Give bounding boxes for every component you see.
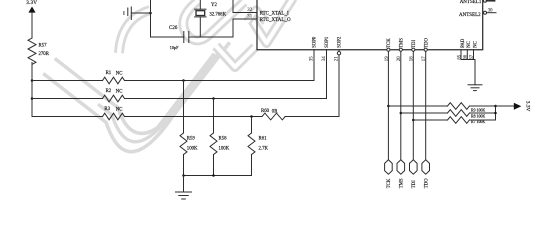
svg-text:R8 100K: R8 100K bbox=[471, 114, 485, 118]
pin SOP0 bbox=[309, 36, 317, 61]
svg-text:65: 65 bbox=[457, 54, 462, 59]
port TDI bbox=[410, 160, 418, 189]
ground pad bbox=[468, 85, 482, 91]
wire pin31 bbox=[233, 18, 257, 20]
wire net B right bbox=[125, 98, 327, 100]
svg-text:TMS: TMS bbox=[399, 178, 404, 188]
resistor R2 NC bbox=[103, 89, 125, 102]
pin PAD bbox=[457, 38, 466, 59]
pin ANTSEL2 bbox=[484, 11, 487, 14]
wire net C right bbox=[285, 116, 339, 118]
power symbol 3.3V bbox=[26, 0, 37, 12]
node bus-netA bbox=[31, 79, 34, 82]
wire SOP0 drop bbox=[313, 50, 315, 81]
svg-text:ANTSEL1: ANTSEL1 bbox=[460, 0, 482, 5]
wire R9 right bbox=[470, 105, 496, 107]
IC U1 outline bbox=[257, 0, 483, 50]
svg-text:21: 21 bbox=[334, 56, 339, 61]
crystal Y2 32.768K bbox=[195, 0, 227, 37]
port TCK bbox=[385, 160, 393, 189]
svg-text:C26: C26 bbox=[169, 26, 178, 31]
wire pullup vertical bbox=[495, 106, 497, 120]
svg-text:16: 16 bbox=[410, 56, 415, 61]
wire R7 right bbox=[470, 119, 496, 121]
wire R59 column bbox=[183, 81, 185, 134]
svg-text:29: 29 bbox=[488, 0, 493, 4]
wire R58 bottom bbox=[213, 155, 215, 176]
node TDI tap bbox=[412, 119, 415, 122]
resistor R7 100K bbox=[448, 117, 486, 124]
node pullup top bbox=[494, 105, 497, 108]
ground bbox=[176, 192, 192, 199]
svg-text:NC: NC bbox=[116, 71, 123, 76]
wire SOP2 drop bbox=[338, 55, 340, 117]
watermark chevron B bbox=[216, 46, 255, 67]
wire R61 column bbox=[251, 117, 253, 134]
wire gnd stem bbox=[183, 176, 185, 193]
resistor R60 0R bbox=[261, 109, 285, 120]
svg-text:TDO: TDO bbox=[424, 178, 429, 188]
svg-text:ANTSEL2: ANTSEL2 bbox=[459, 13, 481, 18]
svg-text:17: 17 bbox=[422, 56, 427, 61]
wire pin32 bbox=[233, 0, 257, 13]
wire bbox=[31, 13, 33, 38]
node netC-R61 bbox=[250, 115, 253, 118]
svg-text:270R: 270R bbox=[39, 52, 50, 57]
watermark apex bbox=[247, 10, 266, 22]
svg-text:R9 100K: R9 100K bbox=[471, 109, 485, 113]
svg-text:SOP2: SOP2 bbox=[338, 36, 343, 48]
power arrow 3.3V right bbox=[514, 101, 531, 112]
svg-text:TDI: TDI bbox=[412, 180, 417, 188]
svg-text:34: 34 bbox=[322, 56, 327, 61]
pin ANTSEL1 bbox=[484, 0, 487, 2]
wire pad bar bbox=[461, 59, 475, 61]
svg-text:R61: R61 bbox=[259, 137, 268, 142]
svg-text:19: 19 bbox=[385, 56, 390, 61]
svg-text:66: 66 bbox=[464, 54, 469, 59]
pin NC 67 bbox=[470, 41, 479, 59]
watermark letter U stroke bbox=[43, 0, 293, 152]
svg-text:32.768K: 32.768K bbox=[209, 12, 226, 17]
resistor R3 NC bbox=[103, 107, 125, 120]
watermark arc left bbox=[119, 10, 150, 53]
pin TDO bbox=[422, 38, 429, 62]
resistor R9 100K bbox=[448, 103, 486, 113]
svg-text:R1: R1 bbox=[106, 71, 112, 76]
node bus-netB bbox=[31, 97, 34, 100]
wire net B left bbox=[32, 98, 103, 100]
svg-text:R2: R2 bbox=[106, 89, 112, 94]
resistor R59 100K bbox=[180, 133, 198, 154]
pin TDI bbox=[410, 40, 417, 62]
svg-text:100K: 100K bbox=[219, 147, 230, 152]
svg-text:30: 30 bbox=[488, 8, 493, 13]
svg-text:TDO: TDO bbox=[424, 38, 429, 48]
pin SOP2 bbox=[334, 36, 342, 61]
svg-text:NC: NC bbox=[116, 107, 123, 112]
resistor R57 270R bbox=[28, 38, 50, 64]
wire left vertical bbox=[151, 0, 184, 37]
pin SOP1 bbox=[322, 36, 330, 61]
wire net C mid bbox=[125, 116, 263, 118]
node netB-R58 bbox=[212, 97, 215, 100]
wire gnd rail bbox=[184, 175, 252, 177]
node netA-R59 bbox=[182, 79, 185, 82]
node rail-R59 bbox=[182, 174, 185, 177]
svg-text:R57: R57 bbox=[39, 44, 48, 49]
svg-text:NC: NC bbox=[467, 41, 472, 48]
wire TDI pullup bbox=[413, 119, 447, 121]
svg-text:0R: 0R bbox=[272, 109, 278, 114]
wire TDI bbox=[412, 51, 414, 160]
watermark chevron C bbox=[250, 17, 283, 43]
svg-text:2.7K: 2.7K bbox=[259, 147, 269, 152]
node rail-R58 bbox=[212, 174, 215, 177]
wire C26 to crystal net bbox=[189, 19, 233, 37]
watermark hook stroke bbox=[183, 1, 244, 41]
wire TCK pullup bbox=[388, 105, 447, 107]
svg-text:R60: R60 bbox=[261, 109, 270, 114]
wire cap to node bbox=[131, 12, 150, 14]
svg-text:R58: R58 bbox=[219, 137, 228, 142]
wire net A right bbox=[125, 80, 315, 82]
svg-text:TCK: TCK bbox=[387, 178, 392, 188]
watermark slash bbox=[281, 0, 293, 17]
svg-text:R3: R3 bbox=[104, 107, 110, 112]
resistor R58 100K bbox=[210, 133, 230, 154]
wire pad stem bbox=[474, 60, 476, 85]
wire R61 bottom bbox=[251, 155, 253, 176]
svg-text:35: 35 bbox=[309, 56, 314, 61]
wire to 3.3V bbox=[496, 105, 514, 107]
node cap junction bbox=[149, 12, 152, 15]
svg-text:R59: R59 bbox=[187, 137, 196, 142]
svg-text:31: 31 bbox=[247, 15, 252, 20]
pin NC 66 bbox=[464, 41, 473, 59]
svg-text:NC: NC bbox=[116, 89, 123, 94]
svg-text:RTC_XTAL_I: RTC_XTAL_I bbox=[260, 12, 289, 17]
wire left bus bbox=[31, 62, 33, 116]
wire net A left bbox=[32, 80, 103, 82]
wire TMS pullup bbox=[401, 112, 448, 114]
svg-text:10pF: 10pF bbox=[170, 45, 179, 50]
wire SOP1 drop bbox=[326, 50, 328, 99]
svg-text:SOP1: SOP1 bbox=[325, 36, 330, 48]
node TMS tap bbox=[400, 112, 403, 115]
resistor R61 2.7K bbox=[248, 133, 268, 154]
port TMS bbox=[397, 160, 405, 189]
svg-text:TCK: TCK bbox=[387, 38, 392, 48]
svg-text:PAD: PAD bbox=[461, 38, 466, 48]
port TDO bbox=[422, 160, 430, 189]
wire TCK bbox=[387, 51, 389, 160]
svg-text:100K: 100K bbox=[187, 147, 198, 152]
wire R59 bottom bbox=[183, 155, 185, 176]
svg-text:20: 20 bbox=[397, 56, 402, 61]
svg-text:3.3V: 3.3V bbox=[26, 0, 37, 6]
resistor R8 100K bbox=[448, 110, 486, 119]
wire TMS bbox=[400, 51, 402, 160]
pin TCK bbox=[385, 38, 392, 61]
svg-text:RTC_XTAL_O: RTC_XTAL_O bbox=[260, 18, 291, 23]
resistor R1 NC bbox=[103, 71, 125, 84]
capacitor C25 bbox=[124, 7, 131, 20]
svg-text:TDI: TDI bbox=[412, 40, 417, 48]
node TCK tap bbox=[387, 105, 390, 108]
svg-text:NC: NC bbox=[474, 41, 479, 48]
svg-text:3.3V: 3.3V bbox=[524, 101, 530, 112]
wire TDO bbox=[425, 51, 427, 160]
svg-text:TMS: TMS bbox=[399, 38, 404, 48]
svg-text:32: 32 bbox=[247, 8, 252, 13]
wire R58 column bbox=[213, 99, 215, 134]
capacitor C26 10pF bbox=[169, 26, 189, 50]
svg-text:67: 67 bbox=[470, 54, 475, 59]
wire R8 right bbox=[470, 112, 496, 114]
node pullup mid bbox=[494, 112, 497, 115]
svg-text:Y2: Y2 bbox=[211, 3, 217, 8]
pin TMS bbox=[397, 38, 404, 61]
svg-text:SOP0: SOP0 bbox=[313, 36, 318, 48]
wire net C left bbox=[32, 116, 103, 118]
